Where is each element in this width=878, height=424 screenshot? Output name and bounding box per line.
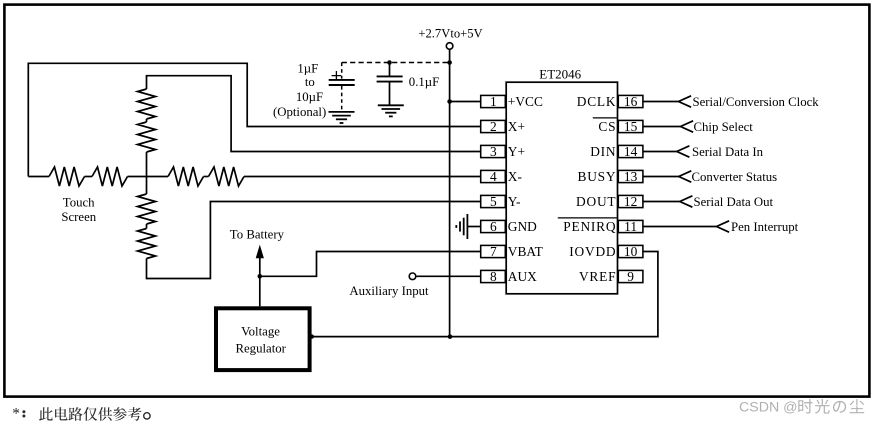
svg-text:Regulator: Regulator bbox=[235, 342, 286, 356]
svg-text:11: 11 bbox=[624, 219, 637, 234]
ground (C2) bbox=[378, 105, 404, 116]
svg-text:6: 6 bbox=[490, 219, 497, 234]
svg-text:10µF: 10µF bbox=[296, 90, 323, 104]
resistor: touch screen bottom R7 bbox=[138, 194, 156, 224]
node: regulator output bbox=[310, 334, 314, 338]
wire pin 15 bbox=[643, 126, 681, 128]
wire bbox=[146, 224, 148, 229]
resistor: touch screen bottom R8 bbox=[138, 229, 156, 259]
wire: regulator output to IOVDD pin 10 bbox=[311, 252, 658, 337]
svg-text:Pen Interrupt: Pen Interrupt bbox=[731, 220, 799, 234]
overline CS bbox=[593, 117, 617, 119]
svg-text:DIN: DIN bbox=[590, 144, 616, 159]
wire: VCC vertical bbox=[449, 49, 451, 336]
resistor: touch screen top R6 bbox=[138, 122, 156, 152]
arrowhead pin 14 bbox=[677, 146, 690, 157]
svg-text:Screen: Screen bbox=[61, 210, 96, 224]
wire: X- net horizontal resistor row to pin 4 bbox=[28, 176, 49, 178]
svg-text:+VCC: +VCC bbox=[508, 94, 543, 109]
svg-text:AUX: AUX bbox=[508, 269, 537, 284]
wire bbox=[85, 176, 93, 178]
svg-text:12: 12 bbox=[624, 194, 637, 209]
pin 8 box bbox=[481, 270, 506, 282]
pin 2 box bbox=[481, 120, 506, 132]
svg-text:(Optional): (Optional) bbox=[273, 105, 326, 119]
node: dashed rail / VCC junction bbox=[447, 60, 452, 65]
svg-text:Y+: Y+ bbox=[508, 144, 525, 159]
svg-text:To Battery: To Battery bbox=[230, 228, 285, 242]
wire: VCC to pin 1 bbox=[450, 101, 481, 103]
wire pin 16 bbox=[643, 101, 679, 103]
pin 9 box bbox=[618, 270, 643, 282]
svg-text:BUSY: BUSY bbox=[577, 169, 616, 184]
note full stop bbox=[144, 413, 150, 419]
svg-text:+2.7Vto+5V: +2.7Vto+5V bbox=[418, 26, 482, 40]
node: VCC/pin1 junction bbox=[447, 99, 452, 104]
svg-text:13: 13 bbox=[624, 169, 638, 184]
arrowhead pin 13 bbox=[679, 171, 692, 182]
svg-text:PENIRQ: PENIRQ bbox=[563, 219, 616, 234]
svg-text:15: 15 bbox=[624, 119, 638, 134]
To Battery arrow bbox=[259, 250, 261, 306]
svg-text:X-: X- bbox=[508, 169, 522, 184]
svg-text:CS: CS bbox=[598, 119, 616, 134]
wire bbox=[128, 176, 169, 178]
svg-text:5: 5 bbox=[490, 194, 497, 209]
svg-text:Touch: Touch bbox=[63, 195, 95, 209]
svg-text:10: 10 bbox=[624, 244, 638, 259]
pin 13 box bbox=[618, 170, 643, 182]
wire to pin 4 bbox=[244, 176, 481, 178]
svg-text:Converter Status: Converter Status bbox=[692, 170, 778, 184]
node: VCC / regulator output junction bbox=[448, 334, 453, 339]
wire: Y- net bottom of chain to pin 5 bbox=[147, 202, 481, 279]
resistor: touch screen left R1 bbox=[49, 167, 85, 186]
svg-text:VREF: VREF bbox=[579, 269, 616, 284]
C1 plus sign bbox=[332, 71, 342, 80]
arrowhead pin 12 bbox=[680, 196, 693, 207]
wire pin 14 bbox=[643, 151, 677, 153]
svg-text:3: 3 bbox=[490, 144, 497, 159]
pin 12 box bbox=[618, 195, 643, 207]
resistor: touch screen right R3 bbox=[168, 167, 203, 186]
pin 15 box bbox=[618, 120, 643, 132]
pin 5 box bbox=[481, 195, 506, 207]
pin 3 box bbox=[481, 145, 506, 157]
note text 此电路仅供参考 bbox=[39, 407, 53, 421]
svg-text:1µF: 1µF bbox=[297, 61, 318, 75]
overline PENIRQ bbox=[558, 217, 617, 219]
svg-text:Serial Data Out: Serial Data Out bbox=[694, 195, 774, 209]
capacitor C2 0.1uF bbox=[389, 63, 391, 76]
arrowhead pin 15 bbox=[681, 121, 694, 132]
svg-text:Voltage: Voltage bbox=[241, 324, 280, 338]
svg-text:Serial Data In: Serial Data In bbox=[692, 145, 764, 159]
svg-text:16: 16 bbox=[624, 94, 638, 109]
ground at pin 6 (GND) bbox=[468, 226, 481, 228]
wire bbox=[204, 176, 209, 178]
svg-text:CSDN @: CSDN @ bbox=[739, 399, 798, 415]
svg-text:Y-: Y- bbox=[508, 194, 521, 209]
svg-text:DOUT: DOUT bbox=[576, 194, 616, 209]
pin 10 box bbox=[618, 245, 643, 257]
wire pin 13 bbox=[643, 176, 679, 178]
wire: battery net to pin 7 VBAT bbox=[260, 252, 481, 277]
svg-text:IOVDD: IOVDD bbox=[569, 244, 616, 259]
svg-text:4: 4 bbox=[490, 169, 497, 184]
svg-text:2: 2 bbox=[490, 119, 497, 134]
resistor: touch screen left R2 bbox=[92, 167, 128, 186]
svg-text:Auxiliary Input: Auxiliary Input bbox=[349, 284, 429, 298]
note colon bbox=[22, 410, 25, 413]
wire vertical through cross bbox=[146, 152, 148, 194]
node: battery junction bbox=[258, 274, 263, 279]
svg-text:14: 14 bbox=[624, 144, 638, 159]
arrowhead pin 16 bbox=[679, 96, 692, 107]
svg-text:*: * bbox=[12, 406, 20, 423]
IC U1 ET2046 body bbox=[506, 82, 617, 294]
svg-text:DCLK: DCLK bbox=[577, 94, 617, 109]
svg-text:8: 8 bbox=[490, 269, 497, 284]
node: dashed rail / 0.1uF junction bbox=[387, 60, 392, 65]
ground (C1) bbox=[329, 112, 355, 123]
voltage regulator U2 bbox=[216, 308, 310, 370]
wire pin 12 bbox=[643, 201, 680, 203]
pin 6 box bbox=[481, 220, 506, 232]
pin 7 box bbox=[481, 245, 506, 257]
pin 14 box bbox=[618, 145, 643, 157]
svg-text:ET2046: ET2046 bbox=[539, 67, 581, 82]
power terminal +2.7V to +5V bbox=[446, 43, 453, 50]
svg-text:Serial/Conversion Clock: Serial/Conversion Clock bbox=[693, 95, 820, 109]
arrowhead pin 11 bbox=[717, 221, 730, 232]
wire: Y+ net from touch screen top to pin 3 bbox=[147, 76, 481, 152]
svg-text:Chip Select: Chip Select bbox=[694, 120, 754, 134]
resistor: touch screen top R5 bbox=[138, 89, 156, 119]
wire: X+ net from touch screen left to pin 2 bbox=[28, 63, 480, 176]
wire: dashed bypass-cap rail bbox=[342, 62, 450, 64]
wire bbox=[146, 119, 148, 122]
svg-text:X+: X+ bbox=[508, 119, 525, 134]
svg-text:GND: GND bbox=[508, 219, 537, 234]
wire: aux to pin 8 bbox=[416, 275, 481, 277]
pin 1 box bbox=[481, 95, 506, 107]
svg-text:1: 1 bbox=[490, 94, 497, 109]
pin 11 box bbox=[618, 220, 643, 232]
pin 4 box bbox=[481, 170, 506, 182]
pin 16 box bbox=[618, 95, 643, 107]
resistor: touch screen right R4 bbox=[209, 167, 244, 186]
svg-text:7: 7 bbox=[490, 244, 497, 259]
svg-text:VBAT: VBAT bbox=[508, 244, 543, 259]
capacitor C1 1uF-10uF optional (dashed leads) bbox=[341, 63, 343, 79]
wire pin 11 bbox=[643, 226, 717, 228]
svg-text:9: 9 bbox=[627, 269, 634, 284]
svg-text:to: to bbox=[305, 75, 315, 89]
svg-text:0.1µF: 0.1µF bbox=[409, 75, 440, 89]
auxiliary input terminal bbox=[409, 273, 416, 280]
